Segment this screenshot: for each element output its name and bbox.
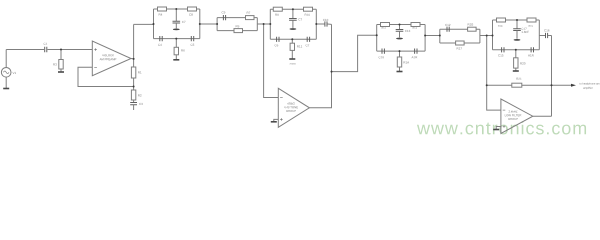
text LOW FILTER [505,114,521,116]
node T2 output [315,23,317,25]
ground R20 [513,70,519,72]
capacitor C7 center [175,9,177,21]
node output junction [551,84,553,86]
net4 box [440,29,480,43]
value label R8 [275,14,278,16]
resistor R1 [131,67,135,78]
resistor R6 [174,47,178,55]
node T3 bottom center [399,50,401,52]
value label AGND [290,63,296,65]
twin-T T4 box [493,20,540,50]
ground U2 plus [271,121,277,123]
net2 box [217,18,257,31]
node input/R3 [60,49,62,51]
value label 1.8nF [522,31,529,33]
resistor R5 [188,7,197,11]
capacitor C5 [191,36,193,41]
op-amp U2 [278,88,309,127]
node stage3 tap [331,71,333,73]
wire down to U3 inv [487,36,501,111]
wire net4 to T4 [480,35,493,37]
resistor R2 [131,90,135,100]
value label R19 [529,25,533,27]
twin-T T2 box [270,9,316,39]
ground R14 [397,71,403,73]
value label A1R [412,56,418,58]
value label R9 [236,25,239,27]
value label C4 [158,44,162,46]
resistor R13 [411,23,420,27]
node net4 left [439,35,441,37]
U1 pin - (inverting input) [94,66,97,68]
resistor R3 [59,60,63,70]
value label R21 [516,78,521,80]
twin-T T1 box [154,9,200,39]
wire R1 to R2 [133,78,135,90]
value label R12 [382,27,386,29]
node T1 bottom center [175,38,177,40]
value label R18 [498,25,502,27]
value label R6 [181,49,184,51]
node T2 top center [292,8,294,10]
resistor R11 [290,43,294,50]
ground V1 [3,88,9,90]
value label C1 [44,43,48,45]
value label R7 [247,12,250,14]
ground R11 [289,58,295,60]
node U3 inverting tap [486,35,488,37]
text 2.4kHZ [509,110,518,112]
wire + input gnd [496,127,501,130]
value label R1 [138,71,141,73]
text GROUP [286,110,296,112]
capacitor C11 [382,49,384,54]
value label C5 [191,44,195,46]
U2 pin + (non-inverting input) [280,118,283,121]
capacitor C8 center [292,9,294,18]
resistor R9 [234,29,243,33]
value label R1B [468,23,473,25]
node T4 input [492,35,494,37]
capacitor C16 [539,35,545,37]
text to headphone am [580,83,600,85]
text 4.43 TONE [284,106,298,108]
resistor R8 [273,7,282,11]
node R21 left [486,84,488,86]
capacitor C18 [531,47,533,52]
capacitor C14 [415,49,417,54]
node T3 output [424,35,426,37]
resistor R7 [246,16,255,20]
wire main line to C1 [6,49,44,51]
wire T1 bottom center to R6 [175,39,177,48]
wire R2 to C3 [133,100,135,102]
wire T3 bottom center to R14 [399,51,401,57]
resistor R16 [468,27,477,31]
wire T4 bottom center to R20 [515,50,517,58]
U3 pin - (inverting input) [503,109,506,111]
node U1 feedback [133,86,135,88]
value label C18 [379,56,384,58]
node T4 bottom center [515,49,517,51]
text amplifier [583,87,593,89]
capacitor C3 [130,103,137,105]
wire U1 output [131,58,134,60]
op-amp U3 [501,99,533,134]
resistor R10 [304,7,313,11]
value label R1A [404,61,410,63]
value label C12 [445,24,450,26]
value label R10 [305,14,310,16]
wire U1 - input feedback loop [78,67,134,86]
resistor R19 [527,18,536,22]
node T3 input [376,34,378,36]
node T1 top center [175,8,177,10]
node T2 bottom center [291,38,293,40]
node U1 output [133,58,135,60]
wire to T1 [134,23,154,25]
wire T3 to net4 [425,35,440,37]
ground R3 [58,71,64,73]
wire T1 to net2 [200,23,217,25]
text 4-BLOCK [102,54,114,56]
arrowhead [571,84,576,87]
capacitor C9 [223,15,225,20]
value label R13 [413,27,417,29]
wire U1 output rail [133,24,135,67]
value label V1 [13,72,17,74]
capacitor C15 [502,47,504,52]
value label C2 [306,44,310,46]
wire V1 to main line [5,50,7,68]
capacitor C10 [316,23,324,25]
resistor R21 [512,83,522,87]
value label C3 [139,103,143,105]
feedback line R21 [487,84,552,86]
arrow line [552,84,572,86]
text AM PREAMP [100,58,117,60]
node T4 top center [516,19,518,21]
twin-T T3 box [377,25,425,52]
wire C3 to ground [133,105,135,110]
U3 pin + (non-inverting input) [503,125,506,128]
wire T2 bottom center to R11 [291,39,293,43]
node T1 input [153,23,155,25]
wire branch to T3 [332,35,377,71]
value label A1R [528,54,534,56]
value label C16 [544,29,549,31]
U1 pin + (non-inverting input) [94,48,97,51]
value label R20 [520,62,525,64]
grounds [3,59,519,130]
resistor R20 [514,58,518,68]
resistor R18 [497,18,506,22]
wire U3 out [533,115,552,117]
value label R4 [159,14,163,16]
text 4SB/2 [287,102,294,104]
ground U3 plus [493,129,499,131]
value label R11 [297,45,302,47]
value label C13 [405,30,410,32]
value label R2 [138,94,141,96]
capacitor C12 [447,27,449,32]
capacitor C4 [160,36,162,41]
value label C10 [323,19,328,21]
source V1 [1,68,11,78]
value label C7 [298,18,302,20]
wire down to U2 inv [264,24,279,98]
wire + input gnd [274,119,279,121]
value label R3 [53,63,56,65]
rail right [551,36,553,117]
value label C8 [189,14,193,16]
opamp +/- marks [94,48,505,128]
capacitor C6 [277,37,279,42]
node net2 left [216,23,218,25]
watermark www.cntronics.com [417,121,586,134]
wire C1 to U1 + input [48,49,93,51]
value label C7 [182,21,186,23]
resistor R14 [397,57,401,67]
wire V1 to ground [5,77,7,88]
wire U2 out [309,24,331,107]
value label C6 [275,44,279,46]
resistor R4 [158,7,167,11]
value label R17 [457,47,462,49]
value label C9 [222,11,226,13]
ground R6 [173,59,179,61]
node T3 top center [399,24,401,26]
resistor R17 [456,41,465,45]
capacitor C1 [45,47,47,52]
value label C17 [521,28,526,30]
capacitor C2 [307,37,309,42]
capacitor C17 center [516,20,518,29]
value label C15 [498,54,503,56]
capacitor C13 center [399,25,401,30]
wire net2 to T2 [257,23,270,25]
resistor R12 [381,23,390,27]
text GROUP [508,118,518,120]
op-amp U1 [92,41,131,76]
node T2 input [269,23,271,25]
wire node to R3 [60,50,62,60]
node U2 inverting tap [263,23,265,25]
node T1 output [199,23,201,25]
U2 pin - (inverting input) [280,97,283,99]
